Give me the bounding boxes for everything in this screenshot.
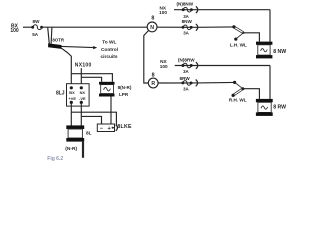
- svg-text:N: N: [150, 25, 154, 31]
- node NX100 label: [75, 63, 92, 69]
- node BX 100 label: [10, 24, 19, 34]
- wire node N to fuse 8NW: [157, 26, 234, 28]
- svg-text:Fig 6.2: Fig 6.2: [47, 156, 63, 162]
- connector 8OTR: [48, 37, 65, 49]
- svg-text:+VE: +VE: [68, 96, 76, 101]
- connector on (N)8RW row: [196, 62, 198, 69]
- wire (N)8NW down to lamp 8NW: [269, 10, 271, 42]
- wire NX100 stub to relay NX terminal: [80, 68, 82, 88]
- fuse 8RW 3A: [180, 76, 193, 91]
- svg-text:8: 8: [151, 16, 154, 22]
- svg-text:NX: NX: [80, 90, 86, 95]
- svg-text:100: 100: [10, 28, 19, 34]
- fuse (N)8RW 3A: [178, 57, 195, 74]
- wire earth cable (N-R): [82, 142, 84, 158]
- connector 8L: [66, 125, 91, 141]
- wire -VE down to connector 8L: [80, 102, 82, 125]
- wire 8OTR to relay BX terminal: [61, 48, 71, 88]
- wire NX tap to LPR: [81, 77, 101, 82]
- caption Fig 6.2: [47, 156, 63, 162]
- svg-text:To WL: To WL: [102, 40, 116, 46]
- fuse 8NW 3A: [182, 19, 193, 36]
- relay 8LJ box: [67, 84, 90, 106]
- fuse 8W 5A: [31, 19, 43, 37]
- lamp unit LPR 8(N-R): [99, 82, 132, 97]
- wire +VE down to connector 8L: [70, 102, 72, 125]
- label To WL Control circuits: [100, 40, 118, 60]
- svg-text:5A: 5A: [32, 32, 39, 37]
- wire node R to fuse 8RW: [158, 81, 235, 84]
- svg-text:BX: BX: [69, 90, 75, 95]
- svg-text:(N)8RW: (N)8RW: [178, 57, 195, 62]
- svg-text:NX100: NX100: [75, 63, 92, 69]
- node NX 100 label (lower row): [160, 59, 168, 69]
- svg-text:LPR: LPR: [119, 92, 129, 97]
- wire (N)8RW down to lamp 8RW: [269, 66, 271, 99]
- svg-text:8 NW: 8 NW: [273, 49, 286, 55]
- svg-text:8LKE: 8LKE: [117, 124, 132, 130]
- wire (N)8RW row: [175, 65, 270, 67]
- terminal +VE: [70, 101, 73, 104]
- wire switch to lamp 8NW: [243, 33, 259, 42]
- wire +VE branch to battery cable connector: [71, 112, 116, 126]
- svg-text:3A: 3A: [183, 31, 189, 36]
- battery cable 8LKE: [97, 124, 132, 132]
- svg-text:circuits: circuits: [100, 54, 117, 60]
- wire main feed to node N: [42, 26, 148, 28]
- wire drop 1 to connector 8OTR: [48, 27, 50, 44]
- svg-text:(N)8NW: (N)8NW: [177, 2, 194, 7]
- svg-text:R: R: [151, 81, 155, 87]
- svg-text:3A: 3A: [183, 87, 189, 92]
- lamp 8 RW: [256, 99, 286, 116]
- svg-text:-VE: -VE: [79, 96, 86, 101]
- wire from BX feed to fuse 8W: [23, 26, 33, 28]
- wire switch to lamp 8RW: [243, 89, 260, 99]
- connector on 8RW row: [196, 80, 198, 87]
- wire drop 2 to connector 8OTR: [50, 27, 53, 44]
- node R: [148, 73, 158, 88]
- connector on 8NW row: [196, 24, 198, 31]
- node NX 100 label (top row): [159, 5, 167, 15]
- wire arrow to WL control circuits: [61, 46, 97, 49]
- svg-text:8: 8: [152, 73, 155, 79]
- wire node N to node R: [144, 31, 149, 83]
- svg-text:8(N-R): 8(N-R): [118, 85, 132, 90]
- svg-text:R.H. WL: R.H. WL: [229, 98, 247, 103]
- svg-text:Control: Control: [101, 47, 118, 53]
- svg-text:8RW: 8RW: [180, 76, 191, 81]
- svg-text:100: 100: [160, 64, 168, 69]
- svg-text:8L: 8L: [86, 131, 92, 137]
- wire (N)8NW row: [174, 9, 270, 11]
- connector on (N)8NW row: [196, 6, 198, 13]
- svg-text:3A: 3A: [183, 69, 189, 74]
- svg-text:(N-R): (N-R): [65, 146, 77, 152]
- terminal NX: [80, 86, 83, 89]
- svg-text:8NW: 8NW: [182, 19, 193, 24]
- switch L.H. WL: [230, 25, 247, 47]
- node N: [147, 16, 157, 32]
- wire -VE branch to battery box: [81, 116, 101, 124]
- wire LPR to battery connector 8LKE: [110, 97, 112, 125]
- switch R.H. WL: [229, 81, 247, 103]
- svg-text:8LJ: 8LJ: [56, 91, 65, 97]
- svg-text:8 RW: 8 RW: [273, 104, 286, 110]
- svg-text:8W: 8W: [33, 19, 41, 24]
- wire BX feed tap to LPR: [71, 74, 112, 82]
- lamp 8 NW: [256, 42, 286, 59]
- svg-text:100: 100: [159, 10, 167, 15]
- svg-text:8OTR: 8OTR: [52, 37, 65, 42]
- terminal -VE: [80, 101, 83, 104]
- svg-text:L.H. WL: L.H. WL: [230, 43, 247, 48]
- terminal BX: [70, 86, 73, 89]
- fuse (N)8NW 3A: [177, 2, 194, 19]
